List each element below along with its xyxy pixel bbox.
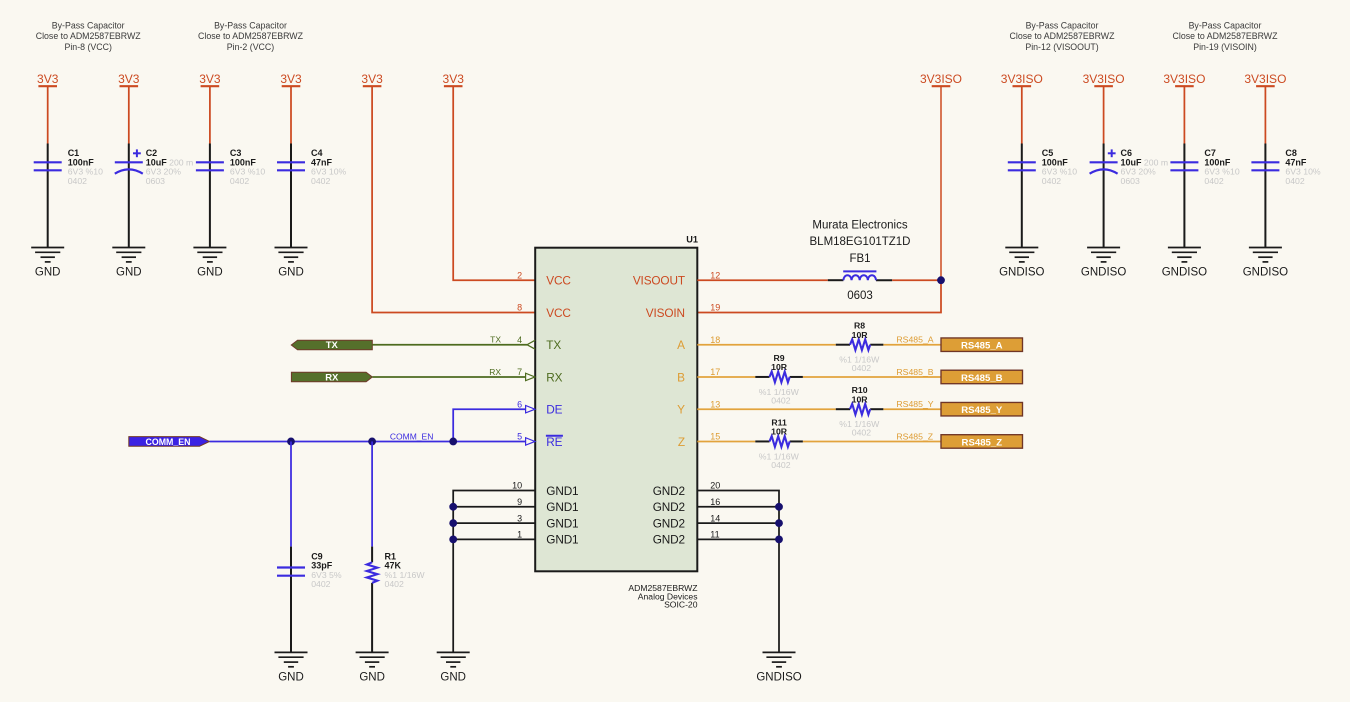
wire R1 pin segments [371, 547, 373, 563]
wire FB1 to junction [892, 279, 941, 281]
svg-text:GND2: GND2 [653, 516, 685, 530]
svg-text:U1: U1 [686, 235, 698, 245]
wire GND2 pin [697, 522, 779, 524]
capacitor C3 [196, 148, 265, 186]
svg-text:GND: GND [116, 267, 142, 279]
svg-text:4: 4 [517, 335, 522, 345]
svg-text:17: 17 [710, 367, 720, 377]
svg-text:DE: DE [546, 403, 562, 417]
svg-text:RX: RX [325, 372, 339, 383]
svg-text:10R: 10R [852, 330, 869, 340]
port RS485_A [941, 338, 1023, 352]
capacitor C8 [1251, 148, 1321, 186]
note bypass caption (Pin-8 (VCC)) [36, 20, 142, 52]
wire C8 power segment [1264, 86, 1266, 143]
wire TX [372, 344, 527, 346]
wire RS485_B pin side [697, 376, 755, 378]
ground GND [31, 248, 64, 279]
svg-text:GND: GND [359, 671, 385, 683]
capacitor C4 [277, 148, 347, 186]
svg-text:2: 2 [517, 270, 522, 280]
ground GND [112, 248, 145, 279]
svg-text:By-Pass Capacitor: By-Pass Capacitor [214, 20, 287, 30]
svg-text:By-Pass Capacitor: By-Pass Capacitor [1189, 20, 1262, 30]
port RS485_Y [941, 402, 1023, 416]
wire C7 pin segment [1183, 144, 1185, 248]
capacitor C7 [1170, 148, 1239, 186]
svg-text:GND1: GND1 [546, 516, 578, 530]
svg-text:12: 12 [710, 270, 720, 280]
svg-text:3V3: 3V3 [280, 72, 302, 86]
power flag 3V3ISO [1001, 72, 1043, 86]
wire COMM_EN to R1 [371, 441, 373, 546]
ground GND [275, 248, 308, 279]
svg-text:RS485_A: RS485_A [896, 335, 933, 345]
svg-text:Y: Y [677, 403, 685, 417]
port COMM_EN [129, 437, 210, 447]
wire GND2 pin [697, 538, 779, 540]
svg-text:SOIC-20: SOIC-20 [664, 600, 698, 610]
ground GND [275, 652, 308, 683]
capacitor C9 [277, 551, 342, 589]
svg-text:RS485_Y: RS485_Y [896, 399, 933, 409]
wire 3V3ISO down to VISOOUT junction [940, 86, 942, 280]
svg-text:GND: GND [278, 671, 304, 683]
svg-text:GND2: GND2 [653, 484, 685, 498]
svg-text:0402: 0402 [311, 579, 330, 589]
wire COMM_EN [210, 440, 526, 442]
svg-text:0402: 0402 [852, 363, 871, 373]
svg-text:20: 20 [710, 481, 720, 491]
wire C6 pin segment [1103, 144, 1105, 248]
svg-text:10R: 10R [771, 427, 788, 437]
resistor R11 [755, 417, 803, 469]
wire C1 pin segment [47, 144, 49, 248]
power flag 3V3ISO [1163, 72, 1205, 86]
note bypass caption (Pin-2 (VCC)) [198, 20, 304, 52]
svg-text:GNDISO: GNDISO [999, 267, 1044, 279]
svg-text:3V3: 3V3 [361, 72, 383, 86]
svg-text:RS485_B: RS485_B [961, 373, 1003, 384]
svg-text:0402: 0402 [1285, 176, 1304, 186]
wire DE branch [453, 409, 525, 441]
svg-text:RE: RE [546, 435, 562, 449]
svg-text:Pin-12 (VISOOUT): Pin-12 (VISOOUT) [1025, 42, 1098, 52]
capacitor C2 [115, 148, 193, 186]
svg-text:0402: 0402 [771, 395, 790, 405]
svg-text:By-Pass Capacitor: By-Pass Capacitor [1026, 20, 1099, 30]
overline RE [546, 435, 563, 437]
svg-text:14: 14 [710, 513, 720, 523]
svg-text:0603: 0603 [146, 176, 165, 186]
wire C8 pin segment [1264, 144, 1266, 248]
svg-text:0402: 0402 [311, 176, 330, 186]
svg-text:GNDISO: GNDISO [756, 671, 801, 683]
svg-text:GND2: GND2 [653, 500, 685, 514]
svg-text:0402: 0402 [230, 176, 249, 186]
svg-text:0402: 0402 [852, 428, 871, 438]
wire C3 pin segment [209, 144, 211, 248]
wire RS485_Z pin side [697, 440, 755, 442]
power flag 3V3ISO [1083, 72, 1125, 86]
wire RS485_Y port side [883, 408, 941, 410]
wire C4 power segment [290, 86, 292, 143]
pin arrow DE (input) [526, 406, 535, 413]
svg-text:RS485_Z: RS485_Z [962, 437, 1003, 448]
svg-text:COMM_EN: COMM_EN [390, 431, 433, 441]
svg-text:GND1: GND1 [546, 500, 578, 514]
port RX [291, 372, 372, 382]
svg-text:GND1: GND1 [546, 484, 578, 498]
note bypass caption (Pin-12 (VISOOUT)) [1010, 20, 1116, 52]
port RS485_Z [941, 435, 1023, 449]
wire VISOOUT to FB1 [697, 279, 828, 281]
wire RX [372, 376, 525, 378]
svg-text:GND: GND [278, 267, 304, 279]
note bypass caption (Pin-19 (VISOIN)) [1173, 20, 1279, 52]
svg-text:Pin-2 (VCC): Pin-2 (VCC) [227, 42, 274, 52]
power flag 3V3 [37, 72, 59, 86]
svg-text:RS485_Z: RS485_Z [896, 431, 933, 441]
svg-text:8: 8 [517, 303, 522, 313]
wire C7 power segment [1183, 86, 1185, 143]
svg-text:0402: 0402 [1042, 176, 1061, 186]
junction GND2 pin 16 [775, 503, 783, 511]
op-amp U1 ADM2587EBRWZ body [535, 248, 697, 572]
svg-text:0402: 0402 [385, 579, 404, 589]
junction GND1 pin 3 [449, 519, 457, 527]
power flag 3V3 [361, 72, 383, 86]
svg-text:Close to ADM2587EBRWZ: Close to ADM2587EBRWZ [198, 31, 304, 41]
svg-text:Pin-19 (VISOIN): Pin-19 (VISOIN) [1193, 42, 1257, 52]
svg-text:GND: GND [197, 267, 223, 279]
svg-text:TX: TX [490, 335, 501, 345]
junction COMM_EN / R1 [368, 438, 376, 446]
svg-text:0603: 0603 [1121, 176, 1140, 186]
svg-text:VCC: VCC [546, 274, 571, 288]
svg-text:6: 6 [517, 399, 522, 409]
wire GND2 bus [697, 491, 779, 653]
wire C5 pin segment [1021, 144, 1023, 248]
svg-text:3V3: 3V3 [199, 72, 221, 86]
svg-text:11: 11 [710, 530, 719, 540]
wire C3 power segment [209, 86, 211, 143]
resistor R8 [836, 321, 884, 373]
svg-text:19: 19 [710, 303, 720, 313]
junction GND2 pin 11 [775, 536, 783, 544]
svg-text:By-Pass Capacitor: By-Pass Capacitor [52, 20, 125, 30]
svg-text:RX: RX [546, 370, 562, 384]
power flag 3V3 [199, 72, 221, 86]
power flag 3V3ISO [1244, 72, 1286, 86]
svg-text:RS485_B: RS485_B [896, 367, 933, 377]
svg-text:GND: GND [35, 267, 61, 279]
ground GNDISO [1243, 248, 1288, 279]
wire VISOOUT junction to VISOIN pin 19 [697, 280, 941, 312]
wire RS485_A pin side [697, 344, 836, 346]
svg-text:3V3ISO: 3V3ISO [1244, 72, 1286, 86]
wire GND1 pin [453, 522, 535, 524]
svg-text:18: 18 [710, 335, 720, 345]
note ADM2587EBRWZ part info [628, 583, 697, 610]
wire C9 pin segment [290, 547, 292, 653]
svg-text:9: 9 [517, 497, 522, 507]
svg-text:Murata Electronics: Murata Electronics [812, 220, 907, 232]
ground GND [356, 652, 389, 683]
svg-text:5: 5 [517, 432, 522, 442]
wire C5 power segment [1021, 86, 1023, 143]
svg-text:0402: 0402 [771, 460, 790, 470]
svg-text:Close to ADM2587EBRWZ: Close to ADM2587EBRWZ [1010, 31, 1116, 41]
svg-text:7: 7 [517, 367, 522, 377]
power flag 3V3 [280, 72, 302, 86]
junction COMM_EN / C9 [287, 438, 295, 446]
svg-text:GNDISO: GNDISO [1243, 267, 1288, 279]
svg-text:BLM18EG101TZ1D: BLM18EG101TZ1D [810, 236, 911, 248]
svg-text:GND2: GND2 [653, 533, 685, 547]
svg-text:Close to ADM2587EBRWZ: Close to ADM2587EBRWZ [36, 31, 142, 41]
svg-text:0402: 0402 [1204, 176, 1223, 186]
svg-text:GND: GND [440, 671, 466, 683]
wire C1 power segment [47, 86, 49, 143]
svg-text:16: 16 [710, 497, 720, 507]
svg-text:RS485_Y: RS485_Y [961, 405, 1003, 416]
wire COMM_EN to C9 [290, 441, 292, 546]
capacitor C1 [34, 148, 103, 186]
capacitor C5 [1008, 148, 1077, 186]
svg-text:Close to ADM2587EBRWZ: Close to ADM2587EBRWZ [1173, 31, 1279, 41]
wire RS485_Y pin side [697, 408, 836, 410]
capacitor C6 [1090, 148, 1168, 186]
junction GND1 pin 1 [449, 536, 457, 544]
svg-text:13: 13 [710, 399, 720, 409]
junction GND2 pin 14 [775, 519, 783, 527]
ground GNDISO [1081, 248, 1126, 279]
wire C4 pin segment [290, 144, 292, 248]
power flag 3V3ISO [920, 72, 962, 86]
svg-text:3V3ISO: 3V3ISO [1163, 72, 1205, 86]
wire GND2 pin [697, 506, 779, 508]
svg-text:COMM_EN: COMM_EN [146, 437, 191, 447]
svg-text:3V3: 3V3 [37, 72, 59, 86]
resistor R9 [755, 353, 803, 405]
ground GNDISO [756, 652, 801, 683]
svg-text:10R: 10R [771, 362, 788, 372]
svg-text:GNDISO: GNDISO [1162, 267, 1207, 279]
port RS485_B [941, 370, 1023, 384]
wire RS485_Z port side [803, 440, 941, 442]
svg-text:Pin-8 (VCC): Pin-8 (VCC) [64, 42, 111, 52]
svg-text:GND1: GND1 [546, 533, 578, 547]
svg-text:3V3: 3V3 [118, 72, 140, 86]
svg-text:VISOIN: VISOIN [646, 306, 685, 320]
wire 3V3 to VCC pin 8 [372, 86, 535, 312]
svg-text:3V3: 3V3 [443, 72, 465, 86]
svg-text:RX: RX [489, 367, 501, 377]
svg-text:GNDISO: GNDISO [1081, 267, 1126, 279]
svg-text:VISOOUT: VISOOUT [633, 274, 685, 288]
svg-text:3V3ISO: 3V3ISO [1083, 72, 1125, 86]
wire RS485_B port side [803, 376, 941, 378]
svg-text:Z: Z [678, 435, 685, 449]
svg-text:3V3ISO: 3V3ISO [1001, 72, 1043, 86]
svg-text:0603: 0603 [847, 290, 873, 302]
junction GND1 pin 9 [449, 503, 457, 511]
svg-text:RS485_A: RS485_A [961, 341, 1003, 352]
svg-text:A: A [677, 338, 685, 352]
junction VISOOUT / 3V3ISO [937, 276, 945, 284]
wire GND1 pin [453, 538, 535, 540]
svg-text:10R: 10R [852, 394, 869, 404]
ground GNDISO [999, 248, 1044, 279]
wire 3V3 to VCC pin 2 [453, 86, 535, 280]
wire C6 power segment [1103, 86, 1105, 143]
svg-text:10: 10 [512, 481, 522, 491]
svg-text:TX: TX [546, 338, 561, 352]
port TX [291, 340, 372, 350]
resistor R1 [367, 551, 426, 589]
ground GNDISO [1162, 248, 1207, 279]
pin arrow TX (output) [527, 340, 535, 349]
svg-text:0402: 0402 [68, 176, 87, 186]
svg-text:FB1: FB1 [849, 253, 870, 265]
wire GND1 bus [453, 491, 535, 653]
svg-text:VCC: VCC [546, 306, 571, 320]
svg-text:15: 15 [710, 432, 720, 442]
ground GND [437, 652, 470, 683]
wire RS485_A port side [883, 344, 941, 346]
pin arrow RE (input) [526, 438, 535, 445]
svg-text:3: 3 [517, 513, 522, 523]
pin arrow RX (input) [526, 373, 535, 380]
junction COMM_EN / DE branch [449, 438, 457, 446]
power flag 3V3 [443, 72, 465, 86]
ground GND [193, 248, 226, 279]
svg-text:1: 1 [517, 530, 522, 540]
svg-text:3V3ISO: 3V3ISO [920, 72, 962, 86]
ferrite bead FB1 [810, 220, 911, 302]
power flag 3V3 [118, 72, 140, 86]
wire C2 pin segment [128, 144, 130, 248]
resistor R10 [836, 385, 884, 437]
svg-text:B: B [677, 370, 685, 384]
wire GND1 pin [453, 506, 535, 508]
svg-text:TX: TX [326, 340, 339, 351]
wire C2 power segment [128, 86, 130, 143]
